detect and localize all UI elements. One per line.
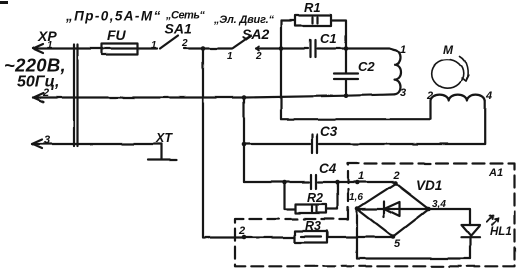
svg-text:5: 5 <box>394 238 401 250</box>
svg-text:SA2: SA2 <box>242 26 269 42</box>
inductor motor winding 2 (terminals 2-4) <box>431 95 486 101</box>
svg-text:2: 2 <box>42 87 49 99</box>
svg-text:1: 1 <box>227 51 233 62</box>
wire R2 branch right riser <box>327 182 338 209</box>
node bridge corner 5 dot <box>391 234 396 239</box>
svg-text:FU: FU <box>107 27 127 43</box>
wire C2 riser from node C <box>345 49 347 74</box>
svg-text:M: M <box>443 43 454 57</box>
svg-text:C3: C3 <box>320 124 338 139</box>
wire SA2 contact to node B and C1 left plate <box>256 47 308 49</box>
svg-text:1: 1 <box>47 40 53 51</box>
inductor motor winding 1 (terminals 1-3) <box>395 50 401 94</box>
capacitor C4 <box>311 175 316 189</box>
node module pin 1 dot <box>355 180 360 185</box>
LED HL1 <box>461 225 480 259</box>
svg-text:„Эл. Двиг.“: „Эл. Двиг.“ <box>213 14 274 26</box>
capacitor C1 <box>311 40 316 57</box>
wire C3 line left <box>244 143 310 145</box>
wire R3 to bridge bottom corner 5 <box>328 236 394 238</box>
wire row3 from XP pin3 to XT <box>32 143 162 145</box>
svg-text:2: 2 <box>238 225 245 237</box>
wire neutral drop x244 from row2 to C4 line <box>243 97 245 182</box>
svg-text:50Гц,: 50Гц, <box>17 74 59 91</box>
svg-text:1: 1 <box>358 170 364 182</box>
wire node A down to R3 feed <box>203 49 295 238</box>
wire R2 branch left riser <box>285 182 296 209</box>
svg-text:R1: R1 <box>304 0 321 15</box>
motor rotation arrow <box>460 57 468 82</box>
wire C1 right plate to node C <box>318 47 347 49</box>
svg-text:~220В,: ~220В, <box>4 55 66 76</box>
wire R1 branch left riser (node B up) <box>280 21 282 49</box>
wire bridge corner 1,6 down to LED return <box>356 209 358 259</box>
svg-text:XT: XT <box>155 131 173 145</box>
svg-text:2: 2 <box>181 38 188 49</box>
svg-text:2: 2 <box>426 90 433 102</box>
wire node C to motor winding terminal 1 <box>346 49 395 51</box>
rectifier bridge VD1 outline <box>357 184 429 237</box>
svg-text:3,4: 3,4 <box>432 199 446 210</box>
svg-text:HL1: HL1 <box>490 226 512 238</box>
node bridge corner 3,4 dot <box>426 207 431 212</box>
switch SA2 blade <box>233 36 251 49</box>
node XP pin1 arrowhead <box>33 44 43 53</box>
svg-text:C2: C2 <box>358 59 375 74</box>
node B junction dot <box>279 46 284 51</box>
svg-text:3: 3 <box>44 134 50 146</box>
wire SA1 contact to node A to SA2 <box>184 47 232 49</box>
svg-text:1,6: 1,6 <box>349 192 363 203</box>
wire row2 neutral from XP pin2 to winding terminal 3 <box>34 94 395 97</box>
svg-text:A1: A1 <box>488 167 503 179</box>
wire row1 phase from XP pin1 to fuse and SA1 <box>33 47 157 49</box>
wire LED return bottom <box>357 257 470 259</box>
resistor R1 <box>295 16 331 27</box>
node module pin 2 dot <box>242 235 247 240</box>
LED HL1 emission arrows <box>487 215 499 225</box>
svg-text:VD1: VD1 <box>416 178 442 193</box>
node XP pin2 arrowhead <box>34 93 44 102</box>
svg-text:C4: C4 <box>319 161 337 176</box>
svg-text:R2: R2 <box>307 191 323 205</box>
dashed module A1 boundary <box>235 164 515 267</box>
svg-text:4: 4 <box>485 90 492 102</box>
wire XP cable double line <box>74 45 78 147</box>
wire C2 bottom to row2 <box>345 80 347 96</box>
fuse FU <box>102 44 138 55</box>
node bridge corner 2 dot <box>393 181 398 186</box>
node XP pin3 arrowhead <box>32 140 42 149</box>
terminal XT earth <box>148 144 177 160</box>
capacitor C3 <box>312 135 317 154</box>
svg-text:SA1: SA1 <box>165 21 192 37</box>
wire C4 line right to bridge top corner <box>318 181 396 183</box>
motor M circle <box>432 59 464 88</box>
switch SA1 blade <box>160 36 178 49</box>
node A junction dot <box>201 46 206 51</box>
node C4-R2 left junction dot <box>282 180 287 185</box>
node C junction dot <box>344 46 349 51</box>
decorative scan mark top left <box>0 1 8 4</box>
svg-text:2: 2 <box>255 51 262 62</box>
node SA2 contact tick <box>256 46 259 50</box>
svg-text:1: 1 <box>151 40 157 51</box>
svg-text:R3: R3 <box>305 219 321 233</box>
svg-text:3: 3 <box>400 87 406 99</box>
svg-text:2: 2 <box>393 170 400 182</box>
node row2-x244 junction dot <box>242 95 247 100</box>
resistor R2 <box>296 205 327 214</box>
resistor R3 <box>295 231 328 243</box>
node C4-R2 right junction dot <box>335 180 340 185</box>
diode inside VD1 <box>360 202 427 218</box>
svg-text:C1: C1 <box>320 31 337 46</box>
svg-text:1: 1 <box>400 44 406 56</box>
node bridge corner 1,6 dot <box>355 206 360 211</box>
node C3-x244 junction dot <box>242 142 247 147</box>
node row2-C2 junction dot <box>344 93 349 98</box>
wire node B down and over to winding terminal 2 <box>281 49 431 120</box>
wire R1 to node C riser <box>331 21 346 49</box>
svg-text:„Пр-0,5А-М“: „Пр-0,5А-М“ <box>65 9 162 24</box>
wire C4 line left <box>244 181 309 183</box>
wire C3 line right to winding terminal 4 <box>319 101 485 145</box>
capacitor C2 <box>334 74 358 80</box>
wire node B to R1 <box>281 19 295 21</box>
wire bridge corner 3,4 to HL1 <box>429 209 471 225</box>
